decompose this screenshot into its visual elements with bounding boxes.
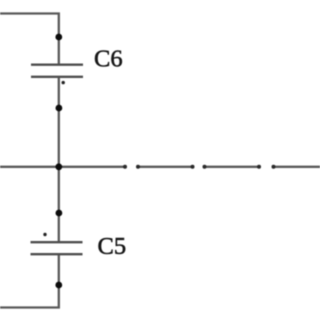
wire C5 bottom plate down and left to edge [0,255,59,308]
capacitor C6 polarity mark [62,81,65,84]
node junction dot at middle crossing [55,163,62,170]
node junction dot top [55,34,62,41]
dash end cap dots on dash-dot line [123,165,276,169]
capacitor C5 [31,242,83,254]
node junction dot below C5 [55,282,62,289]
wire C6 bottom plate to C5 top plate through node crossing [58,77,60,242]
capacitor C5 polarity mark [43,233,46,236]
wire top horizontal into vertical drop to C6 [0,14,59,64]
node junction dot above C5 [56,210,63,217]
svg-text:C6: C6 [94,46,123,73]
wire middle horizontal solid segment [0,166,125,168]
wire dash segment 2 of dash-dot line [205,166,260,168]
wire dash segment 1 of dash-dot line [138,166,192,168]
node junction dot below C6 [56,105,63,112]
capacitor C6 [31,65,83,77]
svg-text:C5: C5 [98,233,127,260]
wire dash segment 3 of dash-dot line [274,166,320,168]
